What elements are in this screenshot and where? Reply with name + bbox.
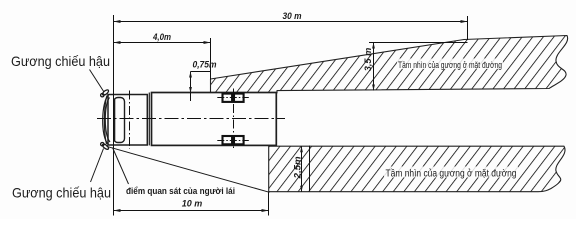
- vehicle horizontal centerline: [97, 118, 285, 120]
- svg-text:Tầm nhìn của gương ở mặt đường: Tầm nhìn của gương ở mặt đường: [386, 167, 517, 179]
- svg-text:4,0m: 4,0m: [152, 32, 171, 42]
- extension line left (x=113.5): [113, 15, 115, 216]
- svg-text:2,5m: 2,5m: [292, 156, 302, 179]
- extension down from 4.0m to wedge tip: [210, 38, 212, 80]
- dimension 3,5m: [369, 42, 468, 44]
- dimension 30m: [114, 21, 468, 23]
- windshield bar: [114, 98, 125, 143]
- svg-text:3,5 m: 3,5 m: [363, 48, 373, 72]
- mirror bottom: [101, 143, 110, 151]
- bottom axle line: [217, 140, 249, 142]
- body front extra line: [148, 93, 150, 146]
- white halo behind upper band caption: [397, 59, 503, 70]
- svg-text:Gương chiếu hậu: Gương chiếu hậu: [11, 53, 110, 69]
- wheels: rear axle bottom pair: [223, 136, 244, 144]
- cab outline: [108, 95, 147, 146]
- svg-text:10 m: 10 m: [182, 198, 203, 208]
- leader line bottom label: [91, 149, 104, 183]
- mirror top: [101, 89, 110, 97]
- cab centerline (vertical dash-dot): [129, 91, 131, 150]
- upper field-of-view band (hatched): [211, 36, 568, 94]
- svg-text:0,75m: 0,75m: [193, 59, 217, 69]
- extension right of 10m: [268, 192, 270, 215]
- svg-text:Tầm nhìn của gương ở mặt đường: Tầm nhìn của gương ở mặt đường: [398, 60, 502, 71]
- cab front contour arcs: [103, 95, 110, 145]
- top axle line: [217, 97, 249, 99]
- axle vertical centerline: [233, 89, 235, 151]
- leader line top label: [90, 70, 105, 93]
- dimension: 2,5m vertical: [301, 146, 303, 192]
- sight line mirror to lower band corner: [107, 146, 270, 192]
- dimension 10m: [114, 210, 269, 212]
- extension line right of 30m: [467, 16, 469, 40]
- 2.5m boundary line in lower band: [309, 146, 311, 192]
- svg-text:điểm quan sát của người lái: điểm quan sát của người lái: [126, 186, 235, 196]
- wheels: rear axle top pair: [223, 94, 244, 102]
- svg-text:Gương chiếu hậu: Gương chiếu hậu: [12, 185, 111, 201]
- lower field-of-view band (hatched): [269, 146, 565, 192]
- leader line to observation point label: [113, 148, 129, 185]
- dimension 4,0m: [114, 42, 211, 44]
- dimension 0,75m: [191, 71, 211, 73]
- truck body (cargo box): [152, 93, 277, 146]
- svg-text:30 m: 30 m: [283, 11, 302, 21]
